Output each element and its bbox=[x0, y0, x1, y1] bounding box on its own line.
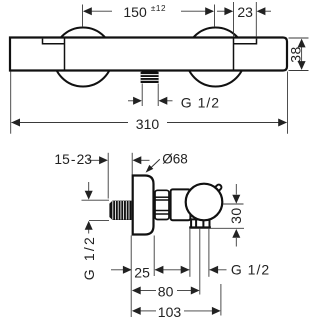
svg-text:Ø68: Ø68 bbox=[162, 151, 188, 166]
svg-text:103: 103 bbox=[158, 304, 182, 320]
svg-text:310: 310 bbox=[136, 116, 160, 132]
svg-text:80: 80 bbox=[158, 283, 174, 299]
svg-text:±12: ±12 bbox=[151, 4, 166, 13]
svg-text:G 1/2: G 1/2 bbox=[231, 261, 270, 277]
svg-text:23: 23 bbox=[237, 4, 253, 20]
svg-text:30: 30 bbox=[228, 207, 244, 224]
svg-text:G 1/2: G 1/2 bbox=[181, 94, 220, 110]
svg-text:150: 150 bbox=[123, 4, 147, 20]
svg-text:G 1/2: G 1/2 bbox=[81, 235, 97, 280]
svg-text:38: 38 bbox=[288, 46, 304, 63]
svg-text:25: 25 bbox=[134, 265, 150, 281]
svg-text:15 - 23: 15 - 23 bbox=[54, 152, 92, 167]
